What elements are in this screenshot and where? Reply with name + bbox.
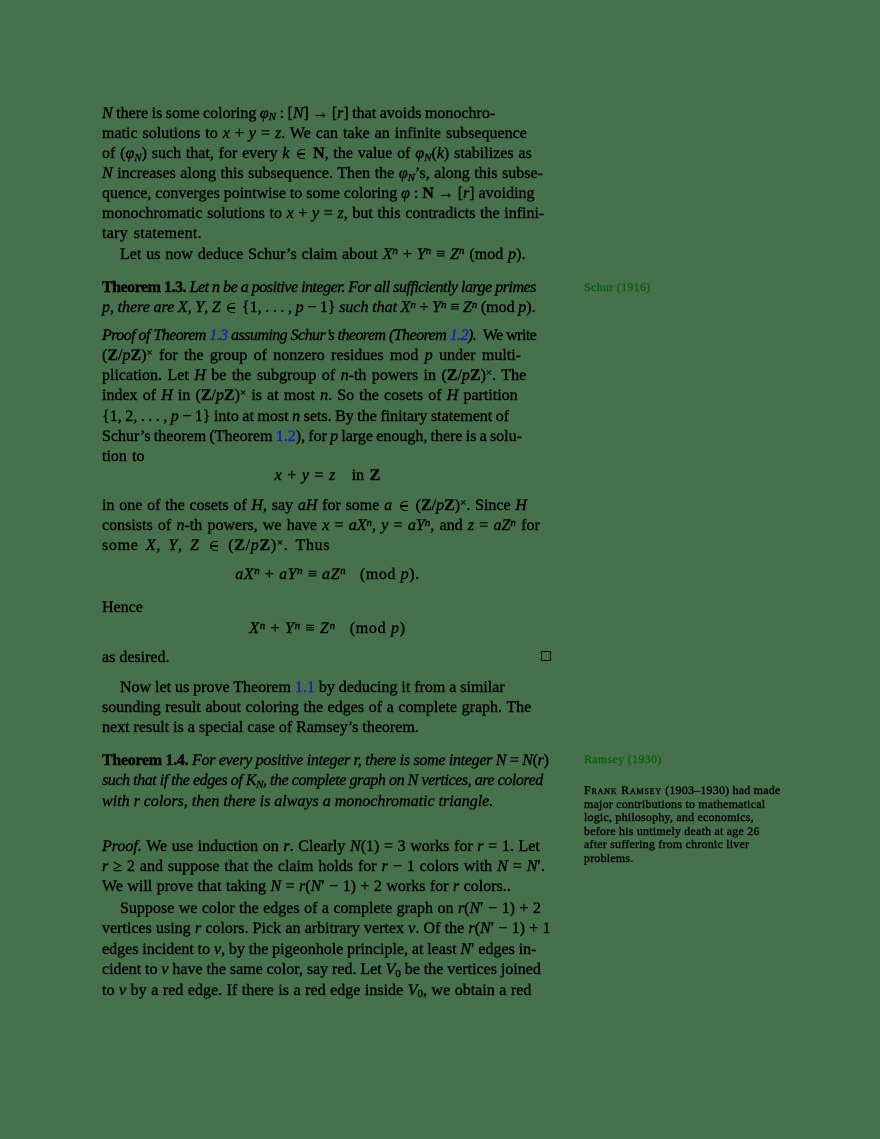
paragraph 1 [102,104,562,265]
theorem 1.4 [102,751,562,811]
theorem 1.3 [102,278,562,318]
proof of theorem 1.4 [102,837,562,897]
equation aX^n [102,565,562,585]
as desired + qed [102,648,562,668]
margin: Ramsey (1930) + note [584,753,799,767]
proof continuation [102,496,562,556]
proof of theorem 1.3 [102,326,562,467]
margin: Schur (1916) [584,281,799,295]
final paragraph [102,899,562,1002]
equation x+y=z [102,466,562,486]
now let us prove [102,678,562,738]
hence [102,598,562,618]
equation X^n [102,619,562,639]
